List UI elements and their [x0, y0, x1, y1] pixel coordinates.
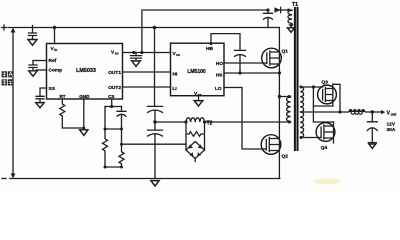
pin Ref [49, 58, 57, 64]
capacitor C8 bias filter [264, 8, 273, 27]
transistor Q2 low-side MOSFET [261, 97, 288, 179]
svg-text:LO: LO [215, 86, 222, 92]
pin HB [206, 46, 213, 52]
svg-text:GND: GND [79, 94, 90, 99]
svg-text:CS: CS [108, 94, 114, 99]
svg-text:Q3: Q3 [322, 80, 329, 86]
op-amp U1 LM5033 controller box [47, 44, 123, 100]
node half-bridge midpoint [153, 120, 156, 123]
wire Q3 source [313, 105, 332, 107]
wire bottom rail [10, 178, 280, 180]
svg-text:12V: 12V [387, 121, 396, 127]
transformer T1 secondary winding [300, 87, 303, 138]
svg-text:in: in [54, 48, 57, 52]
svg-text:T2: T2 [207, 120, 213, 126]
ground at output cap [368, 143, 376, 149]
pin OUT1 [108, 70, 121, 76]
wire HS [224, 71, 281, 74]
wire bias top [142, 10, 289, 53]
svg-text:30A: 30A [387, 127, 396, 133]
transformer T1 aux winding [287, 9, 295, 33]
svg-text:HS: HS [216, 73, 223, 79]
wire CS to bridge [120, 143, 186, 146]
wire secondary top to Q3 gate [300, 85, 323, 88]
inductor L1 output [300, 109, 380, 114]
capacitor C6 divider lower [148, 122, 163, 179]
pin HO [216, 61, 223, 67]
wire primary return with T2 [155, 121, 291, 124]
capacitor C5 divider upper [148, 106, 163, 122]
svg-text:LM5033: LM5033 [76, 68, 96, 74]
resistor R3 CS right leg [104, 129, 125, 169]
svg-text:out: out [391, 113, 397, 117]
svg-text:OUT1: OUT1 [108, 70, 121, 76]
resistor R4 burden [186, 122, 205, 150]
op-amp U2 LM5100 driver box [171, 43, 225, 95]
wire OUT1 to HI [123, 71, 171, 73]
svg-text:Q4: Q4 [321, 145, 328, 151]
node Vin feed [53, 26, 56, 44]
svg-text:Q2: Q2 [282, 154, 289, 160]
label Vout [387, 111, 398, 117]
label 30A [387, 127, 396, 133]
wire Comp [36, 69, 46, 71]
pin HS [216, 73, 223, 79]
node switch midpoint [278, 95, 291, 98]
diode D1 bias rectifier [274, 7, 280, 12]
input - terminal [2, 178, 6, 180]
transistor Q4 sync FET [316, 122, 335, 151]
wire LO to Q2 gate [224, 88, 266, 150]
capacitor C3 on SS [36, 88, 47, 108]
capacitor C2 on Ref [29, 61, 47, 77]
svg-text:HO: HO [216, 61, 223, 67]
pin RT [59, 94, 65, 99]
transformer T2 current sense winding [184, 118, 206, 124]
resistor R2 CS left leg [103, 107, 108, 168]
input + terminal [2, 25, 7, 30]
ground at GND pin [80, 99, 88, 135]
svg-text:Comp: Comp [49, 67, 63, 73]
label 输入电压 (drawn pseudo-glyphs) [2, 71, 14, 85]
pin HI [173, 72, 178, 78]
svg-text:HB: HB [206, 46, 213, 52]
pin Vcc U2 [173, 51, 181, 57]
wire secondary bottom to Q4 gate [300, 136, 322, 139]
pin GND [79, 94, 90, 99]
capacitor C1 input bypass [28, 26, 37, 46]
svg-text:T1: T1 [292, 2, 298, 8]
capacitor C10 output [367, 112, 377, 143]
svg-text:RT: RT [59, 94, 65, 99]
capacitor C4 CS filter [104, 107, 127, 131]
svg-text:Ref: Ref [49, 58, 57, 64]
pin Vcc U1 [111, 50, 119, 56]
wire top rail [8, 27, 279, 29]
resistor R1 on RT [60, 99, 84, 128]
svg-text:cc: cc [176, 53, 180, 57]
svg-text:LM5100: LM5100 [187, 69, 206, 75]
wire cross link [313, 87, 333, 122]
label 12V [387, 121, 396, 127]
transformer T1 primary winding [287, 97, 291, 123]
pin CS [108, 94, 114, 99]
ground below bottom rail [151, 181, 159, 186]
background smudge [313, 179, 341, 185]
node rail to divider [153, 26, 157, 107]
pin OUT2 [108, 85, 121, 91]
diode bridge D2-D5 [186, 142, 205, 162]
svg-text:cc: cc [115, 52, 119, 56]
pin LI [173, 86, 178, 92]
pin Comp [49, 67, 63, 73]
pin Vss [194, 91, 202, 97]
node output [371, 110, 374, 113]
svg-text:Q1: Q1 [282, 48, 289, 54]
svg-text:LI: LI [173, 86, 178, 92]
ground at Vss [194, 96, 203, 106]
wire Vcc bus [123, 51, 171, 54]
svg-text:OUT2: OUT2 [108, 85, 121, 91]
node CS network top [105, 99, 122, 108]
transformer T1 core [295, 7, 298, 151]
input voltage arrow [11, 28, 16, 179]
label T2 [207, 120, 213, 126]
capacitor C9 bootstrap [235, 50, 246, 73]
label T1 [292, 2, 298, 8]
pin SS [49, 86, 56, 92]
svg-text:HI: HI [173, 72, 178, 78]
capacitor C7 Vcc bypass [131, 53, 142, 67]
wire HB bootstrap [210, 34, 241, 51]
pin LO [215, 86, 222, 92]
svg-text:SS: SS [49, 86, 56, 92]
pin Vin [51, 46, 58, 52]
transistor Q3 sync FET [318, 80, 340, 112]
arrow to Vout [381, 110, 385, 114]
wire OUT2 to LI [123, 86, 171, 88]
wire HO to Q1 gate [224, 62, 267, 64]
transistor Q1 high-side MOSFET [262, 28, 289, 97]
